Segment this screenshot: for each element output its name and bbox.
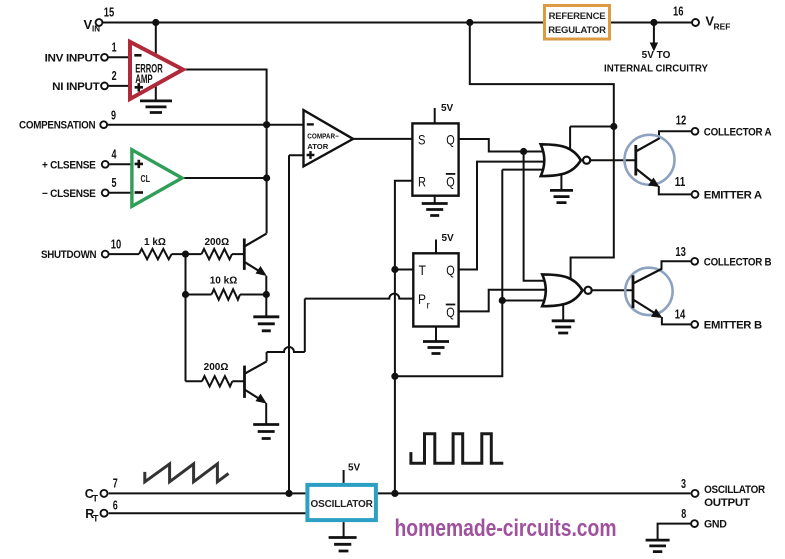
svg-text:COLLECTOR A: COLLECTOR A	[704, 126, 772, 138]
svg-text:5V: 5V	[442, 233, 455, 244]
svg-text:4: 4	[112, 148, 117, 162]
svg-text:− CLSENSE: − CLSENSE	[42, 188, 96, 200]
svg-text:R: R	[418, 174, 426, 190]
svg-text:OSCILLATOR: OSCILLATOR	[311, 499, 374, 510]
svg-text:Q: Q	[446, 304, 455, 320]
svg-text:13: 13	[675, 245, 686, 259]
svg-text:homemade-circuits.com: homemade-circuits.com	[395, 515, 617, 542]
svg-text:COLLECTOR B: COLLECTOR B	[704, 256, 772, 268]
svg-text:200Ω: 200Ω	[204, 362, 229, 373]
svg-text:6: 6	[113, 499, 118, 513]
svg-text:5V TO: 5V TO	[642, 50, 671, 61]
svg-text:Q: Q	[446, 262, 455, 278]
svg-text:3: 3	[681, 477, 686, 491]
svg-text:1 kΩ: 1 kΩ	[144, 237, 166, 248]
svg-text:T: T	[93, 513, 99, 523]
svg-text:COMPAR−: COMPAR−	[307, 134, 339, 141]
svg-text:11: 11	[675, 175, 686, 189]
svg-text:Q: Q	[446, 173, 455, 189]
svg-text:2: 2	[112, 69, 117, 83]
svg-text:10 kΩ: 10 kΩ	[210, 276, 237, 287]
svg-text:GND: GND	[704, 519, 727, 531]
svg-text:Q: Q	[446, 131, 455, 147]
svg-text:S: S	[418, 131, 426, 147]
svg-text:EMITTER B: EMITTER B	[704, 319, 762, 331]
svg-text:REGULATOR: REGULATOR	[548, 25, 606, 36]
svg-text:5: 5	[112, 176, 117, 190]
svg-text:REFERENCE: REFERENCE	[549, 11, 606, 22]
svg-text:200Ω: 200Ω	[204, 237, 229, 248]
svg-text:15: 15	[104, 6, 115, 20]
svg-text:10: 10	[111, 237, 122, 251]
svg-text:NI INPUT: NI INPUT	[52, 81, 100, 93]
svg-text:REF: REF	[714, 22, 731, 32]
svg-text:7: 7	[113, 477, 118, 491]
svg-text:T: T	[93, 494, 99, 504]
svg-text:12: 12	[676, 114, 687, 128]
svg-text:9: 9	[111, 109, 116, 123]
svg-text:T: T	[419, 262, 427, 278]
svg-text:EMITTER A: EMITTER A	[704, 189, 762, 201]
svg-text:CL: CL	[141, 173, 151, 185]
svg-text:INV INPUT: INV INPUT	[45, 52, 100, 64]
svg-text:5V: 5V	[441, 103, 454, 114]
svg-text:IN: IN	[92, 25, 100, 34]
svg-text:5V: 5V	[348, 463, 361, 474]
svg-text:ATOR: ATOR	[307, 144, 328, 151]
svg-text:8: 8	[681, 507, 686, 521]
svg-text:SHUTDOWN: SHUTDOWN	[41, 249, 97, 261]
svg-text:INTERNAL CIRCUITRY: INTERNAL CIRCUITRY	[604, 64, 708, 75]
svg-text:+ CLSENSE: + CLSENSE	[42, 159, 96, 171]
svg-text:OSCILLATOR: OSCILLATOR	[704, 484, 765, 496]
svg-text:COMPENSATION: COMPENSATION	[19, 120, 96, 132]
svg-text:P: P	[418, 291, 426, 307]
svg-text:1: 1	[112, 40, 117, 54]
svg-text:OUTPUT: OUTPUT	[704, 497, 750, 509]
svg-text:16: 16	[673, 4, 684, 18]
svg-text:14: 14	[675, 307, 686, 321]
